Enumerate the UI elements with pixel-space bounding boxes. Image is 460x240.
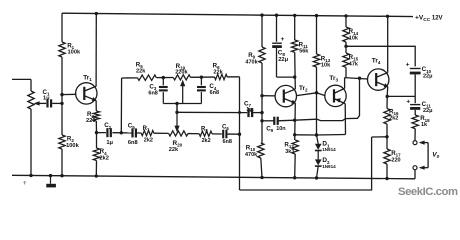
wire: R6 to feedback column corner xyxy=(227,76,239,78)
svg-text:10k: 10k xyxy=(349,36,359,42)
wire: C3-C4 bottom link xyxy=(163,103,201,105)
wire: lower terminal to ground rail xyxy=(414,170,416,179)
svg-text:10k: 10k xyxy=(321,63,331,69)
resistor R8 xyxy=(199,126,212,143)
svg-text:2k2: 2k2 xyxy=(144,137,153,143)
junction: C3 top node xyxy=(162,76,165,79)
wire: C1 to bias node xyxy=(52,102,62,104)
svg-text:56k: 56k xyxy=(299,49,309,55)
wire: D1 node to D1 xyxy=(317,135,319,159)
junction: C1/R1/R2 node xyxy=(60,102,63,105)
wire: emitter node to C2 xyxy=(97,132,106,134)
svg-text:220: 220 xyxy=(391,158,400,164)
wire: R12 to ground xyxy=(294,154,297,178)
wire: feedback column (R6/C6 to output divider) xyxy=(240,77,372,190)
wire: R13 to D1 node xyxy=(316,67,318,135)
wire: node X link xyxy=(372,136,387,138)
wire: C8 from Vcc rail xyxy=(276,15,278,42)
wire: base node to R2 xyxy=(61,103,63,135)
wire: R13 from rail xyxy=(316,16,318,54)
resistor R4 xyxy=(93,148,109,161)
svg-text:220k: 220k xyxy=(175,69,188,75)
wire: R16 to node X xyxy=(386,124,388,137)
svg-text:22k: 22k xyxy=(169,147,179,153)
wire: R17 to ground xyxy=(386,164,388,179)
svg-text:3k3: 3k3 xyxy=(285,149,294,155)
wire: R9 to base node xyxy=(261,63,263,121)
wire: node to R4 xyxy=(96,133,98,148)
junction: C9 tap xyxy=(260,119,263,122)
junction: R4 on ground rail xyxy=(95,174,98,177)
svg-text:22k: 22k xyxy=(136,69,146,75)
wire: wiper node down-tap xyxy=(176,104,178,113)
junction: C8 on Vcc rail xyxy=(275,14,278,17)
junction: R2 on ground rail xyxy=(60,174,63,177)
junction: C7 on base column xyxy=(260,111,263,114)
junction: input pot on ground rail xyxy=(29,174,32,177)
capacitor C8 (electrolytic) xyxy=(272,36,288,63)
junction: R11 on Vcc rail xyxy=(293,14,296,17)
svg-text:22μ: 22μ xyxy=(423,74,432,80)
junction: R10 on ground rail xyxy=(260,176,263,179)
svg-text:R7: R7 xyxy=(143,126,150,133)
R19 wiper arrow xyxy=(180,80,185,104)
wire: R5 to C3 node xyxy=(156,77,163,79)
node V0 output label xyxy=(432,151,439,160)
svg-text:+: + xyxy=(406,61,410,68)
junction: Tr4 collector on Vcc rail xyxy=(386,15,389,18)
wire: Tr1 emitter down xyxy=(95,100,97,111)
wire: R2 to ground xyxy=(61,149,63,176)
wire: ground rail (bottom) xyxy=(12,175,415,179)
wire: R15 to Tr4 base line xyxy=(345,67,347,77)
pot wiper arrow xyxy=(34,101,47,105)
junction: C9/L1 on emitter column xyxy=(293,119,296,122)
svg-text:6n8: 6n8 xyxy=(128,140,138,146)
wire: R18 to output terminal xyxy=(414,129,416,141)
junction: D1 top node xyxy=(315,133,318,136)
wire: input stub xyxy=(12,78,31,80)
capacitor C1 xyxy=(43,89,52,108)
resistor R3 xyxy=(86,111,100,124)
wire: top row left segment xyxy=(122,77,138,79)
junction: Tr1 emitter output node xyxy=(95,131,98,134)
svg-text:+: + xyxy=(281,36,285,43)
wire: Tr1 base wire xyxy=(62,93,76,95)
wire: C6 to feedback column xyxy=(226,133,239,135)
capacitor C6 xyxy=(222,125,232,146)
wire: base node to R10 xyxy=(261,121,263,143)
svg-text:47k: 47k xyxy=(349,61,359,67)
svg-text:R8: R8 xyxy=(201,126,208,133)
junction: C4 top node xyxy=(200,75,203,78)
wire: branch node riser to top row xyxy=(120,78,122,133)
output terminal upper xyxy=(413,141,417,145)
wire: C5 to R7 xyxy=(136,132,141,134)
junction: Tr2 base tap xyxy=(260,94,263,97)
junction: crossing blob at feedback column xyxy=(238,111,241,114)
wire: Tr4 base line xyxy=(345,78,368,79)
svg-text:2k2: 2k2 xyxy=(99,155,109,161)
diode D1 xyxy=(315,141,336,152)
wire: R11 from rail xyxy=(294,15,296,40)
wire: bootstrap line to C10 xyxy=(346,46,415,66)
resistor R16 xyxy=(384,108,399,124)
junction: node X xyxy=(385,135,388,138)
wire: R1 to base node xyxy=(61,57,63,103)
capacitor C7 xyxy=(244,101,253,118)
wire: R14-R15 junction xyxy=(345,42,347,53)
junction: Tr1 collector on Vcc rail xyxy=(95,12,98,15)
svg-text:100k: 100k xyxy=(68,50,81,56)
wire: emitter node to C10/C11 column xyxy=(387,95,415,97)
junction: R9 on Vcc rail xyxy=(260,13,263,16)
capacitor C11 (electrolytic) xyxy=(406,98,432,113)
junction: R14 on Vcc rail xyxy=(344,14,347,17)
junction: wiper node on C3-C4 link xyxy=(175,102,178,105)
wire: wiper node to C7 xyxy=(177,111,247,113)
wire: C2 to branch node xyxy=(112,132,121,134)
wire: pot bottom to ground xyxy=(30,109,32,175)
watermark SeekIC.com xyxy=(398,186,458,198)
transistor Tr3 xyxy=(325,75,346,107)
capacitor C5 xyxy=(128,122,138,145)
svg-text:1μ: 1μ xyxy=(246,107,252,113)
wire: branch node to C5 xyxy=(121,132,132,134)
potentiometer R20 (treble) xyxy=(169,131,188,153)
resistor R18 xyxy=(412,115,430,129)
wire: R7 to R20 xyxy=(154,132,169,134)
resistor R14 xyxy=(343,27,359,42)
resistor R7 xyxy=(141,126,154,143)
wire: Tr4 collector to rail xyxy=(387,16,389,72)
diode D2 xyxy=(315,157,336,169)
svg-text:22μ: 22μ xyxy=(278,57,288,63)
resistor R12 xyxy=(284,140,298,155)
potentiometer RV1 (volume) xyxy=(28,91,34,109)
resistor R15 xyxy=(343,53,359,67)
junction: C8 on collector column xyxy=(293,75,296,78)
junction: C6 on feedback column xyxy=(238,133,241,136)
junction: treble/bass branch node xyxy=(120,131,123,134)
svg-text:2k2: 2k2 xyxy=(389,116,398,122)
resistor R5 xyxy=(136,62,157,81)
wire: C3 node to R19 xyxy=(163,76,173,78)
wire: Tr2 emitter to D1/Tr3 line (L2) xyxy=(295,134,346,137)
node +Vcc 12V supply label xyxy=(415,15,443,23)
wire: node X to R17 xyxy=(386,137,388,149)
svg-text:1k: 1k xyxy=(421,122,428,128)
svg-text:6n8: 6n8 xyxy=(223,139,232,145)
wire: input to volume pot top xyxy=(30,79,32,91)
wire: R20 to R8 xyxy=(188,133,199,135)
wire: R3 to output node xyxy=(95,121,97,133)
svg-text:+: + xyxy=(406,98,410,105)
stray scan tick xyxy=(23,181,26,185)
svg-text:22k: 22k xyxy=(213,69,223,75)
wire: R14 from rail xyxy=(345,16,347,27)
wire: +Vcc supply rail (top) xyxy=(62,13,413,16)
wire: R4 to ground xyxy=(95,161,97,177)
wire: Tr4 emitter down xyxy=(386,87,389,97)
resistor R9 xyxy=(245,47,265,65)
ground symbol xyxy=(46,176,56,188)
junction: Tr3 base tap xyxy=(315,91,318,94)
wire: C10 to emitter node xyxy=(414,74,416,103)
svg-text:6n8: 6n8 xyxy=(148,91,157,97)
capacitor C2 xyxy=(104,122,113,146)
wire: Tr3 collector stub up xyxy=(344,78,346,89)
wire: C9 to Tr3 feed line (L1) xyxy=(278,78,360,121)
wire: Tr3 base wire xyxy=(317,93,326,96)
resistor R2 xyxy=(59,135,80,149)
wire: C11 to R18 xyxy=(414,110,416,115)
svg-text:C6: C6 xyxy=(222,125,229,132)
svg-text:1N914: 1N914 xyxy=(322,164,336,169)
wire: R10 to ground xyxy=(261,158,262,177)
wire: C7 to Tr2 base column xyxy=(252,112,262,114)
wire: Vcc rail corner down to R1 xyxy=(61,13,63,42)
transistor Tr4 xyxy=(368,58,389,91)
resistor R1 xyxy=(59,42,81,57)
resistor R17 xyxy=(384,149,401,164)
junction: L2 on emitter column xyxy=(293,133,296,136)
junction: wiper node tap xyxy=(175,111,178,114)
junction: bootstrap node xyxy=(344,45,347,48)
junction: ground symbol stem on rail xyxy=(49,174,52,177)
svg-text:470k: 470k xyxy=(245,59,258,65)
wire: Tr1 collector to Vcc rail xyxy=(95,14,97,87)
svg-text:2k2: 2k2 xyxy=(202,138,211,144)
svg-text:SeekIC.com: SeekIC.com xyxy=(398,186,458,198)
wire: emitter node to R16 xyxy=(386,96,388,108)
junction: R12 on ground rail xyxy=(293,176,296,179)
wire: R19 to C4 node xyxy=(191,76,202,78)
svg-text:100k: 100k xyxy=(66,143,79,149)
wire: R8 to C6 xyxy=(212,133,222,135)
svg-text:470k: 470k xyxy=(245,152,258,158)
capacitor C3 xyxy=(148,78,167,104)
svg-text:1μ: 1μ xyxy=(43,95,50,101)
wire: C4 node to R6 xyxy=(201,76,214,78)
resistor R13 xyxy=(313,54,331,69)
svg-text:10n: 10n xyxy=(276,126,286,132)
junction: Tr4 emitter node xyxy=(386,95,389,98)
junction: D2 on ground rail xyxy=(315,176,318,179)
capacitor C4 xyxy=(197,77,219,103)
potentiometer R19 (bass) xyxy=(173,63,190,80)
wire: D2 to ground xyxy=(317,166,319,178)
capacitor C9 xyxy=(266,117,286,134)
wire: Tr2 base wire xyxy=(262,95,275,97)
junction: Tr1 base tap xyxy=(60,93,63,96)
svg-text:1μ: 1μ xyxy=(106,140,113,146)
transistor Tr2 xyxy=(275,85,308,107)
wire: Tr2 collector to Tr3 base link xyxy=(297,93,317,96)
svg-text:22μ: 22μ xyxy=(423,108,432,114)
wire: Tr3 emitter column down xyxy=(344,104,346,135)
capacitor C10 (electrolytic) xyxy=(406,61,433,79)
resistor R11 xyxy=(292,40,310,55)
svg-text:220: 220 xyxy=(86,118,96,124)
wire: C8 bottom to Tr2 collector node xyxy=(277,48,295,77)
resistor R10 xyxy=(245,143,264,158)
transistor Tr1 xyxy=(76,75,97,105)
wire: Tr2 bias column xyxy=(261,15,263,47)
svg-text:1N914: 1N914 xyxy=(322,147,336,152)
junction: R13 on Vcc rail xyxy=(315,14,318,17)
output terminal lower xyxy=(413,166,417,170)
svg-text:6n8: 6n8 xyxy=(210,90,219,96)
output bracket arrows xyxy=(419,141,428,170)
R20 wiper arrow xyxy=(174,104,179,133)
junction: R17 on ground rail xyxy=(385,177,388,180)
junction: base line tap xyxy=(358,77,361,80)
wire: Tr2 emitter down xyxy=(294,103,297,140)
wire: C9 left xyxy=(262,120,274,122)
wire: R11 to Tr2 collector xyxy=(294,52,297,89)
resistor R6 xyxy=(213,63,228,80)
